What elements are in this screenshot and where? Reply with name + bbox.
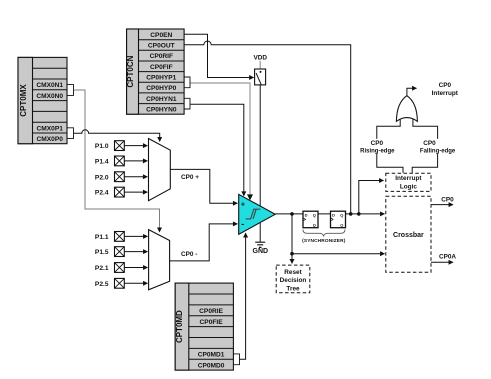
svg-text:Q: Q <box>313 213 316 218</box>
svg-text:CP0FIF: CP0FIF <box>150 64 173 71</box>
node junction dots <box>290 212 294 216</box>
svg-text:Q: Q <box>340 213 343 218</box>
svg-text:Reset: Reset <box>284 269 302 276</box>
register block CPT0MD <box>175 283 233 370</box>
svg-text:CMX0N1: CMX0N1 <box>36 82 63 89</box>
wire HYP gray from CPT0CN to comparator top <box>190 83 250 200</box>
wire OR output to CP0 interrupt <box>407 88 416 96</box>
svg-text:Falling-edge: Falling-edge <box>420 148 456 154</box>
svg-text:(SYNCHRONIZER): (SYNCHRONIZER) <box>302 238 346 244</box>
register block CPT0CN <box>126 29 184 114</box>
flip-flop FF2 (synchronizer stage 2) <box>331 211 346 228</box>
svg-text:CP0EN: CP0EN <box>150 32 172 39</box>
svg-text:CP0: CP0 <box>441 197 454 204</box>
svg-text:P1.0: P1.0 <box>95 143 109 150</box>
svg-text:VDD: VDD <box>253 54 267 61</box>
svg-text:CP0OUT: CP0OUT <box>148 43 175 50</box>
svg-text:GND: GND <box>253 248 269 255</box>
svg-text:CMX0P1: CMX0P1 <box>37 125 64 132</box>
svg-text:CP0RIF: CP0RIF <box>150 53 173 60</box>
bracket CP0HYP pair <box>184 77 190 88</box>
svg-text:CP0: CP0 <box>439 82 452 89</box>
wire CMX0N path to negative mux select <box>74 90 160 232</box>
pin P2.4 <box>95 187 147 197</box>
wire CP0- mux output to comparator <box>170 224 238 261</box>
wire CP0MD select up into comparator bottom <box>240 233 246 359</box>
svg-text:P1.5: P1.5 <box>95 249 109 256</box>
svg-text:Rising-edge: Rising-edge <box>360 148 395 154</box>
wire synchronizer output to interrupt logic <box>359 181 384 214</box>
reset decision tree box <box>276 265 310 293</box>
svg-text:CP0A: CP0A <box>439 253 456 260</box>
svg-text:CPT0MX: CPT0MX <box>19 84 28 117</box>
comparator U1 <box>239 194 276 234</box>
svg-text:CMX0N0: CMX0N0 <box>36 93 63 100</box>
wire CP0OUT with hop, right and down to synchronizer output <box>184 41 351 214</box>
svg-text:CP0FIE: CP0FIE <box>200 319 224 326</box>
interrupt logic box <box>386 173 431 191</box>
crossbar box <box>386 196 431 272</box>
svg-text:P2.1: P2.1 <box>95 265 109 272</box>
wire CP0 output <box>431 204 453 206</box>
wire pre-synchronizer tap to crossbar <box>292 253 384 255</box>
synchronizer brace and label <box>302 230 346 244</box>
svg-text:CPT0CN: CPT0CN <box>126 55 135 87</box>
svg-text:Q: Q <box>313 222 316 227</box>
pin P2.5 <box>95 278 147 288</box>
svg-text:CP0HYP1: CP0HYP1 <box>146 75 176 82</box>
wire OR gate legs and edge-detect routing <box>377 117 438 173</box>
wire CMX0P path with hop to positive mux select <box>74 130 160 141</box>
mux MUX2 (CP0- input select) <box>149 230 170 290</box>
pin P2.0 <box>95 172 147 182</box>
svg-text:CMX0P0: CMX0P0 <box>37 136 64 143</box>
node CP0 Falling-edge label <box>417 139 459 155</box>
svg-text:CP0HYN1: CP0HYN1 <box>146 96 177 103</box>
svg-text:-: - <box>241 219 244 229</box>
svg-text:CP0HYP0: CP0HYP0 <box>146 85 176 92</box>
wire CP0A output <box>431 261 453 263</box>
svg-text:CP0MD1: CP0MD1 <box>198 352 225 359</box>
bracket CP0HYN pair <box>184 98 190 109</box>
pin P1.5 <box>95 247 147 257</box>
pin P2.1 <box>95 263 147 273</box>
svg-text:Decision: Decision <box>280 277 307 284</box>
mux MUX1 (CP0+ input select) <box>149 139 171 201</box>
svg-text:D: D <box>305 213 308 218</box>
svg-text:Interrupt: Interrupt <box>395 175 422 182</box>
svg-text:CP0: CP0 <box>423 140 436 147</box>
svg-text:P2.4: P2.4 <box>95 190 109 197</box>
bracket CMX0N pair <box>67 85 74 96</box>
svg-text:Logic: Logic <box>400 184 417 191</box>
register block CPT0MX <box>18 57 67 143</box>
svg-text:P2.5: P2.5 <box>95 281 109 288</box>
hysteresis symbol <box>246 209 261 219</box>
wire HYN from CPT0CN to comparator top <box>190 104 244 195</box>
wire VDD switch output down to GND rail <box>259 85 261 242</box>
bracket CMX0P pair <box>67 128 74 139</box>
wire branch down to reset decision tree <box>291 214 293 263</box>
node CP0 Rising-edge label <box>357 139 398 155</box>
wire CP0+ mux output to comparator <box>170 169 237 203</box>
ground <box>253 242 269 255</box>
pin P1.1 <box>95 232 147 242</box>
svg-text:Interrupt: Interrupt <box>432 90 459 97</box>
flip-flop FF1 (synchronizer stage 1) <box>303 211 318 228</box>
pin P1.0 <box>95 141 147 151</box>
svg-text:D: D <box>332 213 335 218</box>
or-gate U2 (interrupt OR) <box>396 96 417 122</box>
svg-text:CP0RIE: CP0RIE <box>199 308 223 315</box>
svg-text:P1.1: P1.1 <box>95 234 109 241</box>
svg-text:P1.4: P1.4 <box>95 159 109 166</box>
svg-text:P2.0: P2.0 <box>95 174 109 181</box>
VDD stub <box>259 61 261 69</box>
svg-text:CPT0MD: CPT0MD <box>175 310 184 343</box>
svg-text:CP0 -: CP0 - <box>181 251 197 258</box>
wire comparator output to crossbar <box>275 213 384 215</box>
svg-text:Tree: Tree <box>286 286 300 293</box>
switch SW1 (comparator enable) <box>255 69 266 85</box>
svg-text:CP0 +: CP0 + <box>181 174 199 181</box>
svg-text:CP0MD0: CP0MD0 <box>198 362 225 369</box>
wire CP0EN to VDD switch <box>184 34 253 77</box>
svg-text:Q: Q <box>340 222 343 227</box>
svg-text:+: + <box>241 200 246 209</box>
svg-text:CP0: CP0 <box>371 140 384 147</box>
bracket CP0MD pair <box>233 354 239 365</box>
svg-text:Crossbar: Crossbar <box>393 232 424 239</box>
pin P1.4 <box>95 156 147 166</box>
svg-text:CP0HYN0: CP0HYN0 <box>146 107 177 114</box>
